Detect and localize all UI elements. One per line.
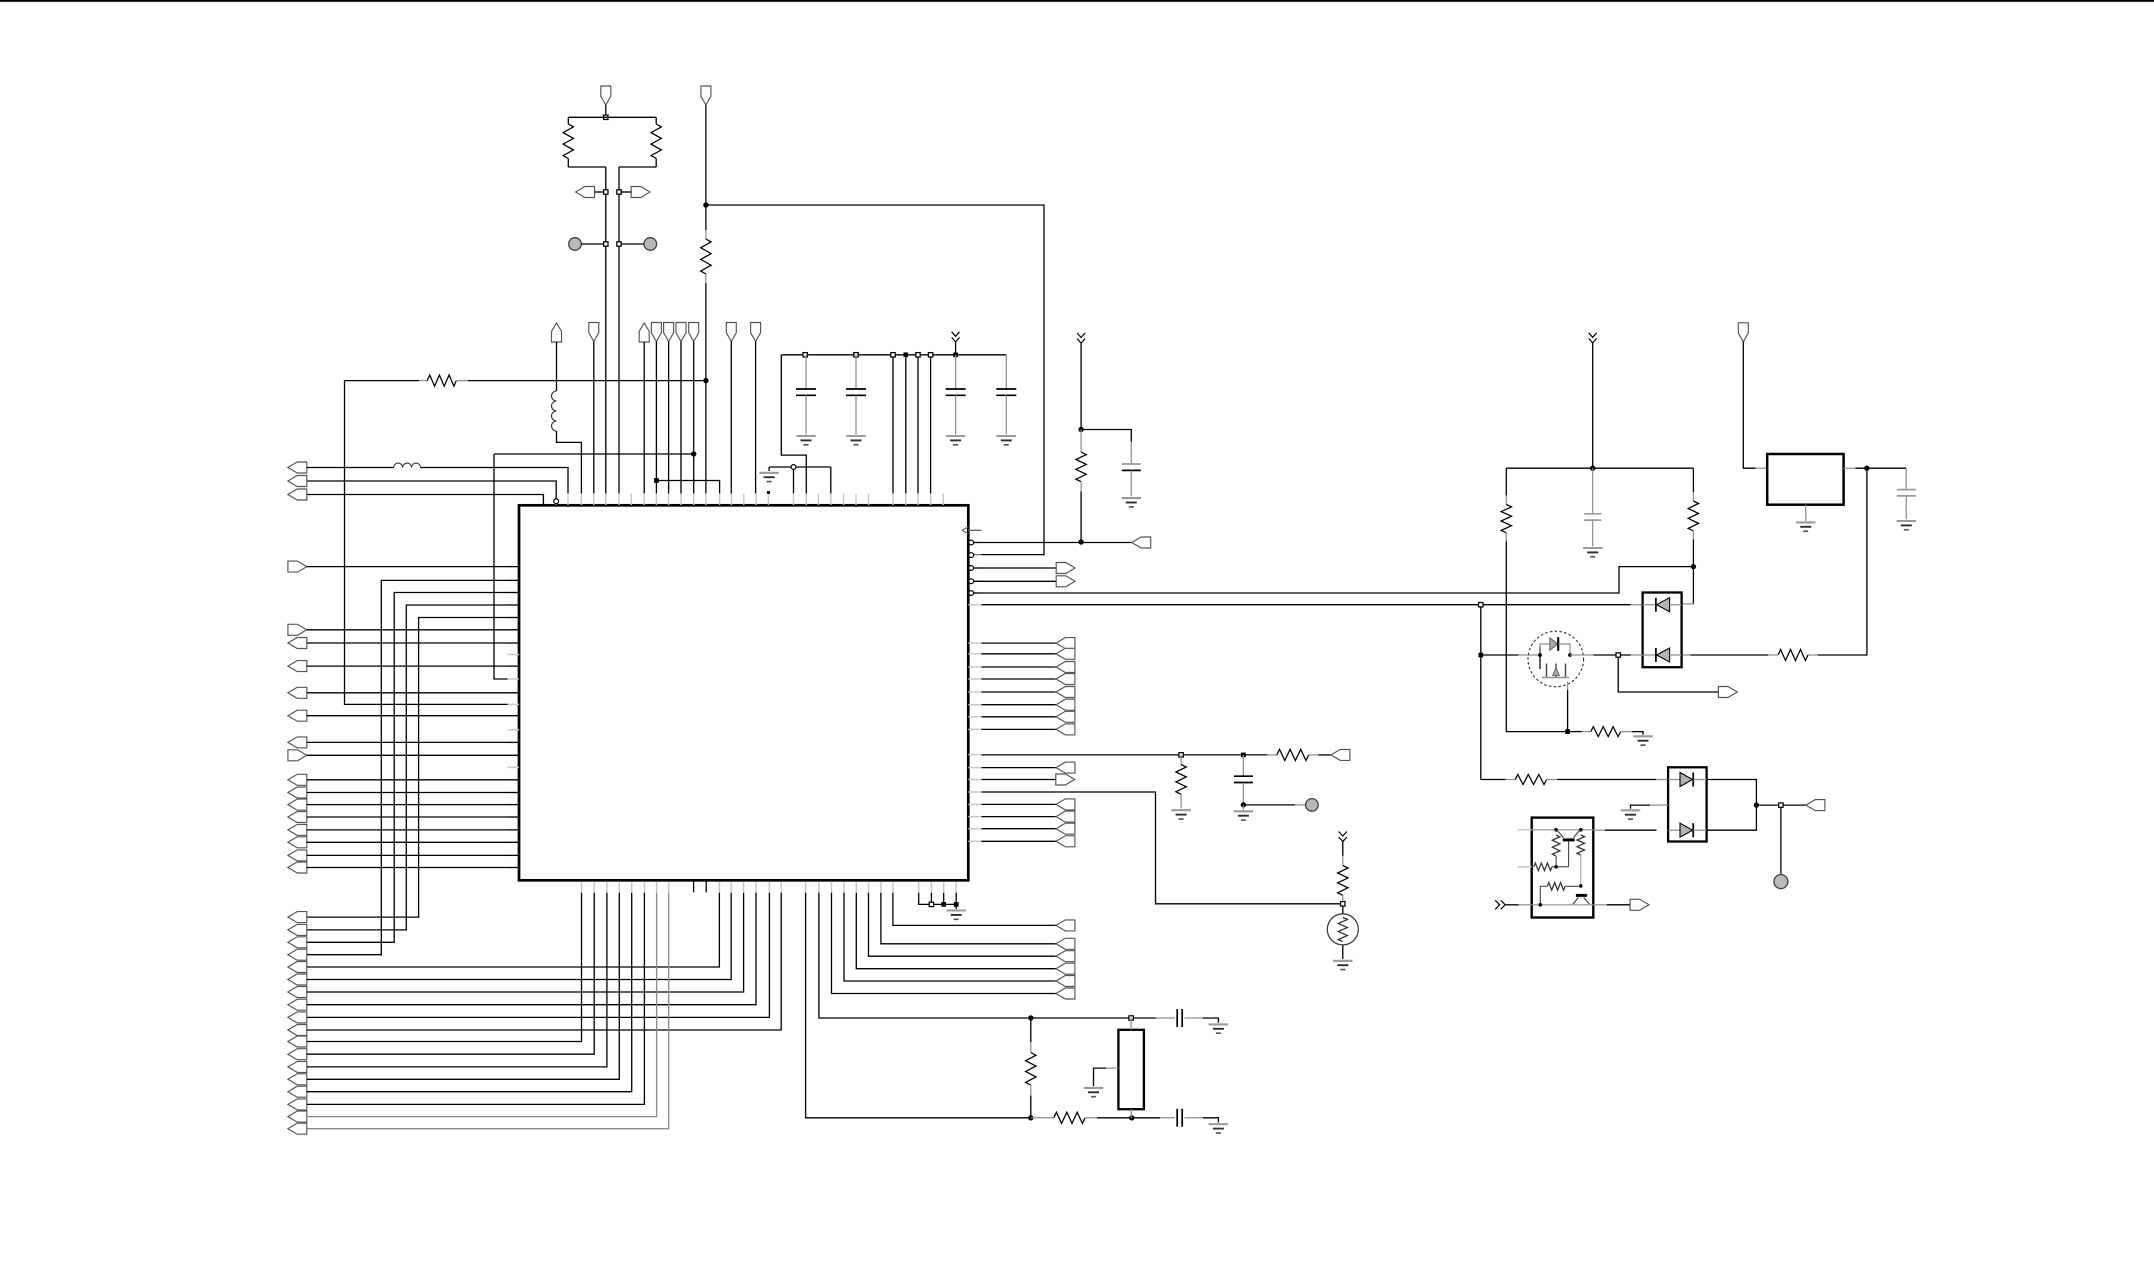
U3 transistor T1 base bar — [1563, 838, 1575, 841]
wire — [1342, 906, 1344, 914]
wire — [595, 191, 606, 193]
junction — [903, 352, 908, 357]
pin stub — [968, 678, 981, 680]
wire — [1540, 886, 1547, 905]
junction — [953, 352, 958, 357]
wire — [1080, 342, 1082, 430]
wire — [955, 342, 957, 355]
wire bus — [307, 618, 519, 918]
thermistor RT1 — [1327, 914, 1358, 945]
wire — [307, 829, 519, 831]
input flag — [288, 476, 307, 487]
wire — [656, 481, 719, 494]
pin stub — [942, 494, 944, 505]
junction — [916, 353, 920, 357]
output flag — [288, 750, 307, 761]
Q1 body diode cathode wire — [1558, 644, 1570, 655]
pin stub — [508, 754, 520, 756]
junction — [1579, 828, 1583, 832]
wire — [619, 243, 644, 245]
wire lead — [1242, 755, 1244, 776]
resistor R13 — [1778, 649, 1808, 660]
output flag — [1056, 836, 1075, 847]
junction — [1241, 802, 1246, 807]
output flag — [1056, 711, 1075, 722]
wire — [605, 105, 607, 117]
resistor R1 — [563, 124, 573, 159]
pin stub — [968, 716, 981, 718]
pin stub — [668, 494, 670, 505]
pin stub — [755, 882, 757, 893]
output flag — [1056, 938, 1075, 949]
wire lead — [955, 395, 957, 434]
pin stub — [508, 841, 520, 843]
pin stub — [655, 494, 657, 505]
pin stub — [943, 882, 945, 893]
wire — [769, 466, 831, 468]
pin stub — [930, 882, 932, 893]
port flag — [676, 323, 686, 342]
wire — [1594, 654, 1631, 656]
junction — [617, 190, 621, 194]
wire — [974, 567, 1694, 593]
wire — [307, 893, 645, 1105]
pin stub — [968, 604, 981, 606]
pin stub — [818, 882, 820, 893]
wire — [1203, 1118, 1218, 1123]
input flag — [288, 862, 307, 873]
power arrow VSS3 — [1339, 832, 1347, 842]
capacitor C10 — [1897, 490, 1916, 496]
diode D2A — [1680, 773, 1693, 787]
wire — [568, 116, 656, 118]
input flag — [288, 974, 307, 985]
wire — [680, 342, 682, 494]
pin stub — [805, 882, 807, 893]
pin stub — [508, 829, 520, 831]
wire — [1567, 690, 1569, 732]
wire — [307, 642, 519, 644]
Q1 source lead — [1567, 682, 1569, 691]
capacitor C7 — [1177, 1009, 1182, 1027]
pin stub — [618, 882, 620, 893]
pin stub — [508, 665, 520, 667]
wire lead — [1005, 355, 1007, 389]
resonator Y1 body — [1118, 1030, 1144, 1109]
wire lead — [1030, 1042, 1032, 1053]
wire — [982, 779, 1057, 781]
wire — [1552, 866, 1569, 868]
wire — [781, 355, 806, 494]
pin stub — [508, 566, 520, 568]
port flag — [651, 323, 661, 342]
wire — [917, 355, 919, 494]
resistor R12 — [1688, 501, 1698, 531]
wire — [1505, 468, 1507, 495]
junction — [1078, 427, 1083, 432]
input flag — [288, 1086, 307, 1097]
wire — [1481, 779, 1506, 781]
wire lead — [1031, 1117, 1054, 1119]
input flag — [288, 987, 307, 998]
thermistor element — [1338, 918, 1347, 942]
wire — [307, 481, 556, 499]
wire lead — [1668, 829, 1680, 831]
input flag — [288, 661, 307, 672]
junction — [1241, 753, 1246, 758]
wire — [930, 893, 932, 905]
no-connect pin — [693, 882, 695, 893]
junction — [929, 902, 933, 906]
pin stub — [508, 629, 520, 631]
wire — [1243, 804, 1295, 806]
wire — [1690, 654, 1768, 656]
wire lead — [1184, 1117, 1203, 1119]
pin stub — [618, 494, 620, 505]
pin stub — [719, 494, 721, 505]
resistor R10 — [1054, 1112, 1085, 1123]
pin stub — [508, 854, 520, 856]
wire bus — [307, 605, 519, 930]
wire — [1565, 885, 1581, 887]
wire lead — [1519, 904, 1532, 906]
wire — [974, 567, 1056, 569]
wire — [974, 580, 1056, 582]
wire — [307, 816, 519, 818]
pin stub — [968, 840, 981, 842]
wire lead — [1693, 829, 1706, 831]
input flag — [288, 1012, 307, 1023]
wire lead — [1180, 794, 1182, 808]
pin stub — [593, 882, 595, 893]
wire — [1081, 430, 1131, 442]
pin stub — [730, 882, 732, 893]
wire lead — [456, 380, 468, 382]
wire — [1506, 542, 1565, 732]
wire — [1780, 808, 1782, 875]
wire lead — [1130, 1018, 1132, 1030]
wire — [1707, 780, 1757, 806]
wire lead — [1670, 604, 1682, 606]
input flag — [288, 949, 307, 960]
wire — [982, 767, 1057, 769]
pin stub — [805, 494, 807, 505]
wire — [307, 792, 519, 794]
pin stub — [968, 767, 981, 769]
pin stub — [968, 728, 981, 730]
output flag — [1056, 920, 1075, 931]
output flag — [1056, 976, 1075, 987]
gray net wire — [307, 893, 669, 1129]
ground — [1333, 961, 1353, 970]
pin ring — [969, 591, 974, 596]
ground U2 — [1796, 522, 1816, 531]
wire — [567, 159, 569, 168]
wire — [1631, 805, 1651, 809]
resistor R6 — [1176, 765, 1186, 795]
pin stub — [917, 494, 919, 505]
pin stub — [755, 494, 757, 505]
output flag — [1630, 899, 1649, 910]
wire — [1342, 842, 1344, 856]
junction — [1579, 884, 1583, 888]
wire — [919, 893, 957, 905]
wire lead — [1184, 1017, 1203, 1019]
Q1 channel taps — [1547, 664, 1566, 678]
output flag — [1056, 699, 1075, 710]
pin stub — [567, 494, 569, 505]
Q1 body diode bar — [1557, 637, 1559, 651]
pin stub — [855, 494, 857, 505]
wire lead — [1670, 654, 1682, 656]
wire — [307, 495, 544, 506]
pin stub — [968, 554, 981, 556]
input flag — [288, 912, 307, 923]
diode D1A — [1656, 598, 1670, 612]
wire — [643, 342, 645, 494]
pin stub — [831, 882, 833, 893]
pin stub — [508, 804, 520, 806]
wire — [982, 792, 1341, 904]
input flag — [288, 812, 307, 823]
pin stub — [818, 494, 820, 505]
wire — [892, 355, 894, 494]
wire — [307, 867, 519, 869]
wire lead — [1295, 804, 1306, 806]
wire rail — [1506, 467, 1693, 469]
wire rail — [781, 354, 1006, 356]
output flag — [1056, 988, 1075, 999]
wire lead — [419, 380, 427, 382]
capacitor C6 — [1234, 776, 1253, 782]
pin stub — [968, 803, 981, 805]
port flag — [589, 323, 599, 342]
inductor L2 — [552, 391, 557, 431]
wire — [307, 692, 519, 694]
wire — [345, 381, 508, 705]
junction ring — [791, 465, 796, 470]
pin stub — [508, 579, 520, 581]
wire — [982, 754, 1268, 756]
pin stub — [680, 494, 682, 505]
pin stub — [508, 592, 520, 594]
output flag — [1056, 648, 1075, 659]
power flag AVCC — [552, 323, 562, 342]
wire — [307, 893, 720, 967]
pin stub — [630, 494, 632, 505]
wire — [1080, 492, 1082, 543]
wire lead — [805, 395, 807, 434]
capacitor C2 — [846, 389, 866, 395]
pin stub — [705, 494, 707, 505]
wire — [982, 678, 1057, 680]
junction — [1129, 1115, 1134, 1120]
pin stub — [555, 494, 557, 505]
pin stub — [508, 729, 520, 731]
junction — [854, 353, 858, 357]
input flag — [288, 787, 307, 798]
pin stub — [868, 494, 870, 505]
wire — [668, 342, 670, 494]
pin stub — [508, 703, 520, 705]
wire lead — [1080, 482, 1082, 492]
wire — [307, 893, 731, 980]
pin stub — [843, 882, 845, 893]
wire lead — [1643, 604, 1656, 606]
input flag — [288, 1036, 307, 1047]
pin stub — [868, 882, 870, 893]
diode D2B — [1680, 823, 1693, 837]
pin stub — [508, 715, 520, 717]
gray net wire — [307, 893, 657, 1117]
wire lead — [1506, 779, 1516, 781]
pin stub — [830, 494, 832, 505]
input flag — [288, 737, 307, 748]
wire — [982, 691, 1057, 693]
input flag — [288, 1123, 307, 1134]
wire lead — [1547, 779, 1557, 781]
junction — [703, 378, 708, 383]
wire lead — [1768, 654, 1778, 656]
U3 resistor Rb — [1577, 835, 1585, 855]
wire — [1319, 754, 1332, 756]
input flag — [288, 1049, 307, 1060]
optocoupler U3 body — [1532, 818, 1594, 918]
junction — [617, 242, 621, 246]
U3 T2 dot — [1584, 894, 1587, 897]
wire lead — [1242, 805, 1244, 810]
power flag VCC1 — [601, 86, 611, 105]
junction — [1179, 753, 1183, 757]
wire lead — [1682, 603, 1694, 605]
pin stub — [693, 494, 695, 505]
input flag — [288, 962, 307, 973]
wire — [819, 893, 1156, 1018]
junction — [1478, 653, 1483, 658]
wire — [982, 816, 1057, 818]
pin ring — [969, 579, 974, 584]
page top border line — [0, 0, 2154, 2]
pin stub — [508, 604, 520, 606]
wire — [307, 715, 519, 717]
ground — [1583, 548, 1603, 557]
wire — [581, 243, 606, 245]
input flag — [288, 462, 307, 473]
wire — [930, 355, 932, 494]
wire — [1592, 343, 1594, 468]
pin stub — [918, 882, 920, 893]
junction — [954, 902, 959, 907]
junction — [891, 353, 895, 357]
pin stub — [606, 882, 608, 893]
pin stub — [743, 882, 745, 893]
Q1 arrow — [1553, 668, 1560, 676]
wire lead — [1692, 531, 1694, 540]
pin stub — [508, 766, 520, 768]
wire — [768, 467, 770, 471]
wire — [494, 453, 694, 455]
ground lead — [1805, 516, 1807, 521]
pin stub — [508, 816, 520, 818]
input flag — [288, 710, 307, 721]
inductor L1 — [394, 463, 421, 467]
ground — [759, 473, 779, 482]
wire — [1607, 904, 1632, 906]
wire — [1692, 540, 1694, 604]
capacitor C4 — [996, 389, 1016, 395]
wire — [1856, 467, 1907, 469]
junction — [1539, 903, 1543, 907]
wire — [556, 342, 558, 391]
ground — [1897, 521, 1917, 530]
pin stub — [905, 494, 907, 505]
junction — [1078, 539, 1083, 544]
wire — [307, 893, 770, 1018]
input flag — [288, 1025, 307, 1036]
U3 resistor Rc — [1534, 863, 1552, 871]
wire — [982, 828, 1057, 830]
pin stub — [508, 617, 520, 619]
wire — [1555, 856, 1557, 867]
pin stub — [605, 494, 607, 505]
pin stub — [968, 704, 981, 706]
wire — [1480, 607, 1482, 779]
IC U1 body — [519, 505, 968, 880]
Q1 drain lead — [1570, 654, 1584, 656]
power arrow VDD — [1589, 333, 1597, 343]
junction — [1341, 902, 1345, 906]
wire — [494, 454, 508, 679]
U3 pin stub — [1518, 866, 1532, 868]
junction — [654, 478, 659, 483]
wire — [1030, 1018, 1032, 1042]
wire — [567, 117, 569, 124]
ground — [1084, 1088, 1104, 1097]
wire lead — [855, 355, 857, 389]
wire lead — [1682, 654, 1691, 656]
power flag — [639, 323, 649, 342]
Q1 substrate line — [1542, 677, 1569, 679]
pin stub — [643, 882, 645, 893]
wire — [1568, 731, 1582, 733]
wire — [893, 893, 1056, 926]
pin stub — [668, 882, 670, 893]
ground — [1633, 736, 1653, 745]
input flag — [288, 687, 307, 698]
U3 transistor T2 base bar — [1576, 894, 1587, 897]
junction — [1554, 865, 1558, 869]
wire — [1756, 804, 1806, 806]
test point TP1 — [569, 238, 582, 251]
wire — [982, 803, 1057, 805]
wire — [307, 893, 607, 1067]
output flag — [288, 624, 307, 635]
resistor R15 — [1515, 775, 1546, 785]
wire lead — [1130, 1109, 1132, 1118]
pin stub — [930, 494, 932, 505]
input flag — [288, 999, 307, 1010]
wire lead — [1080, 430, 1082, 453]
resistor R2 — [651, 124, 661, 159]
ground — [946, 911, 966, 920]
wire — [1203, 1018, 1218, 1023]
pin stub — [767, 494, 769, 505]
port flag — [689, 323, 699, 342]
wire lead — [1030, 1085, 1032, 1096]
wire lead — [1582, 731, 1591, 733]
output flag — [1056, 774, 1075, 785]
pin stub — [542, 494, 544, 505]
